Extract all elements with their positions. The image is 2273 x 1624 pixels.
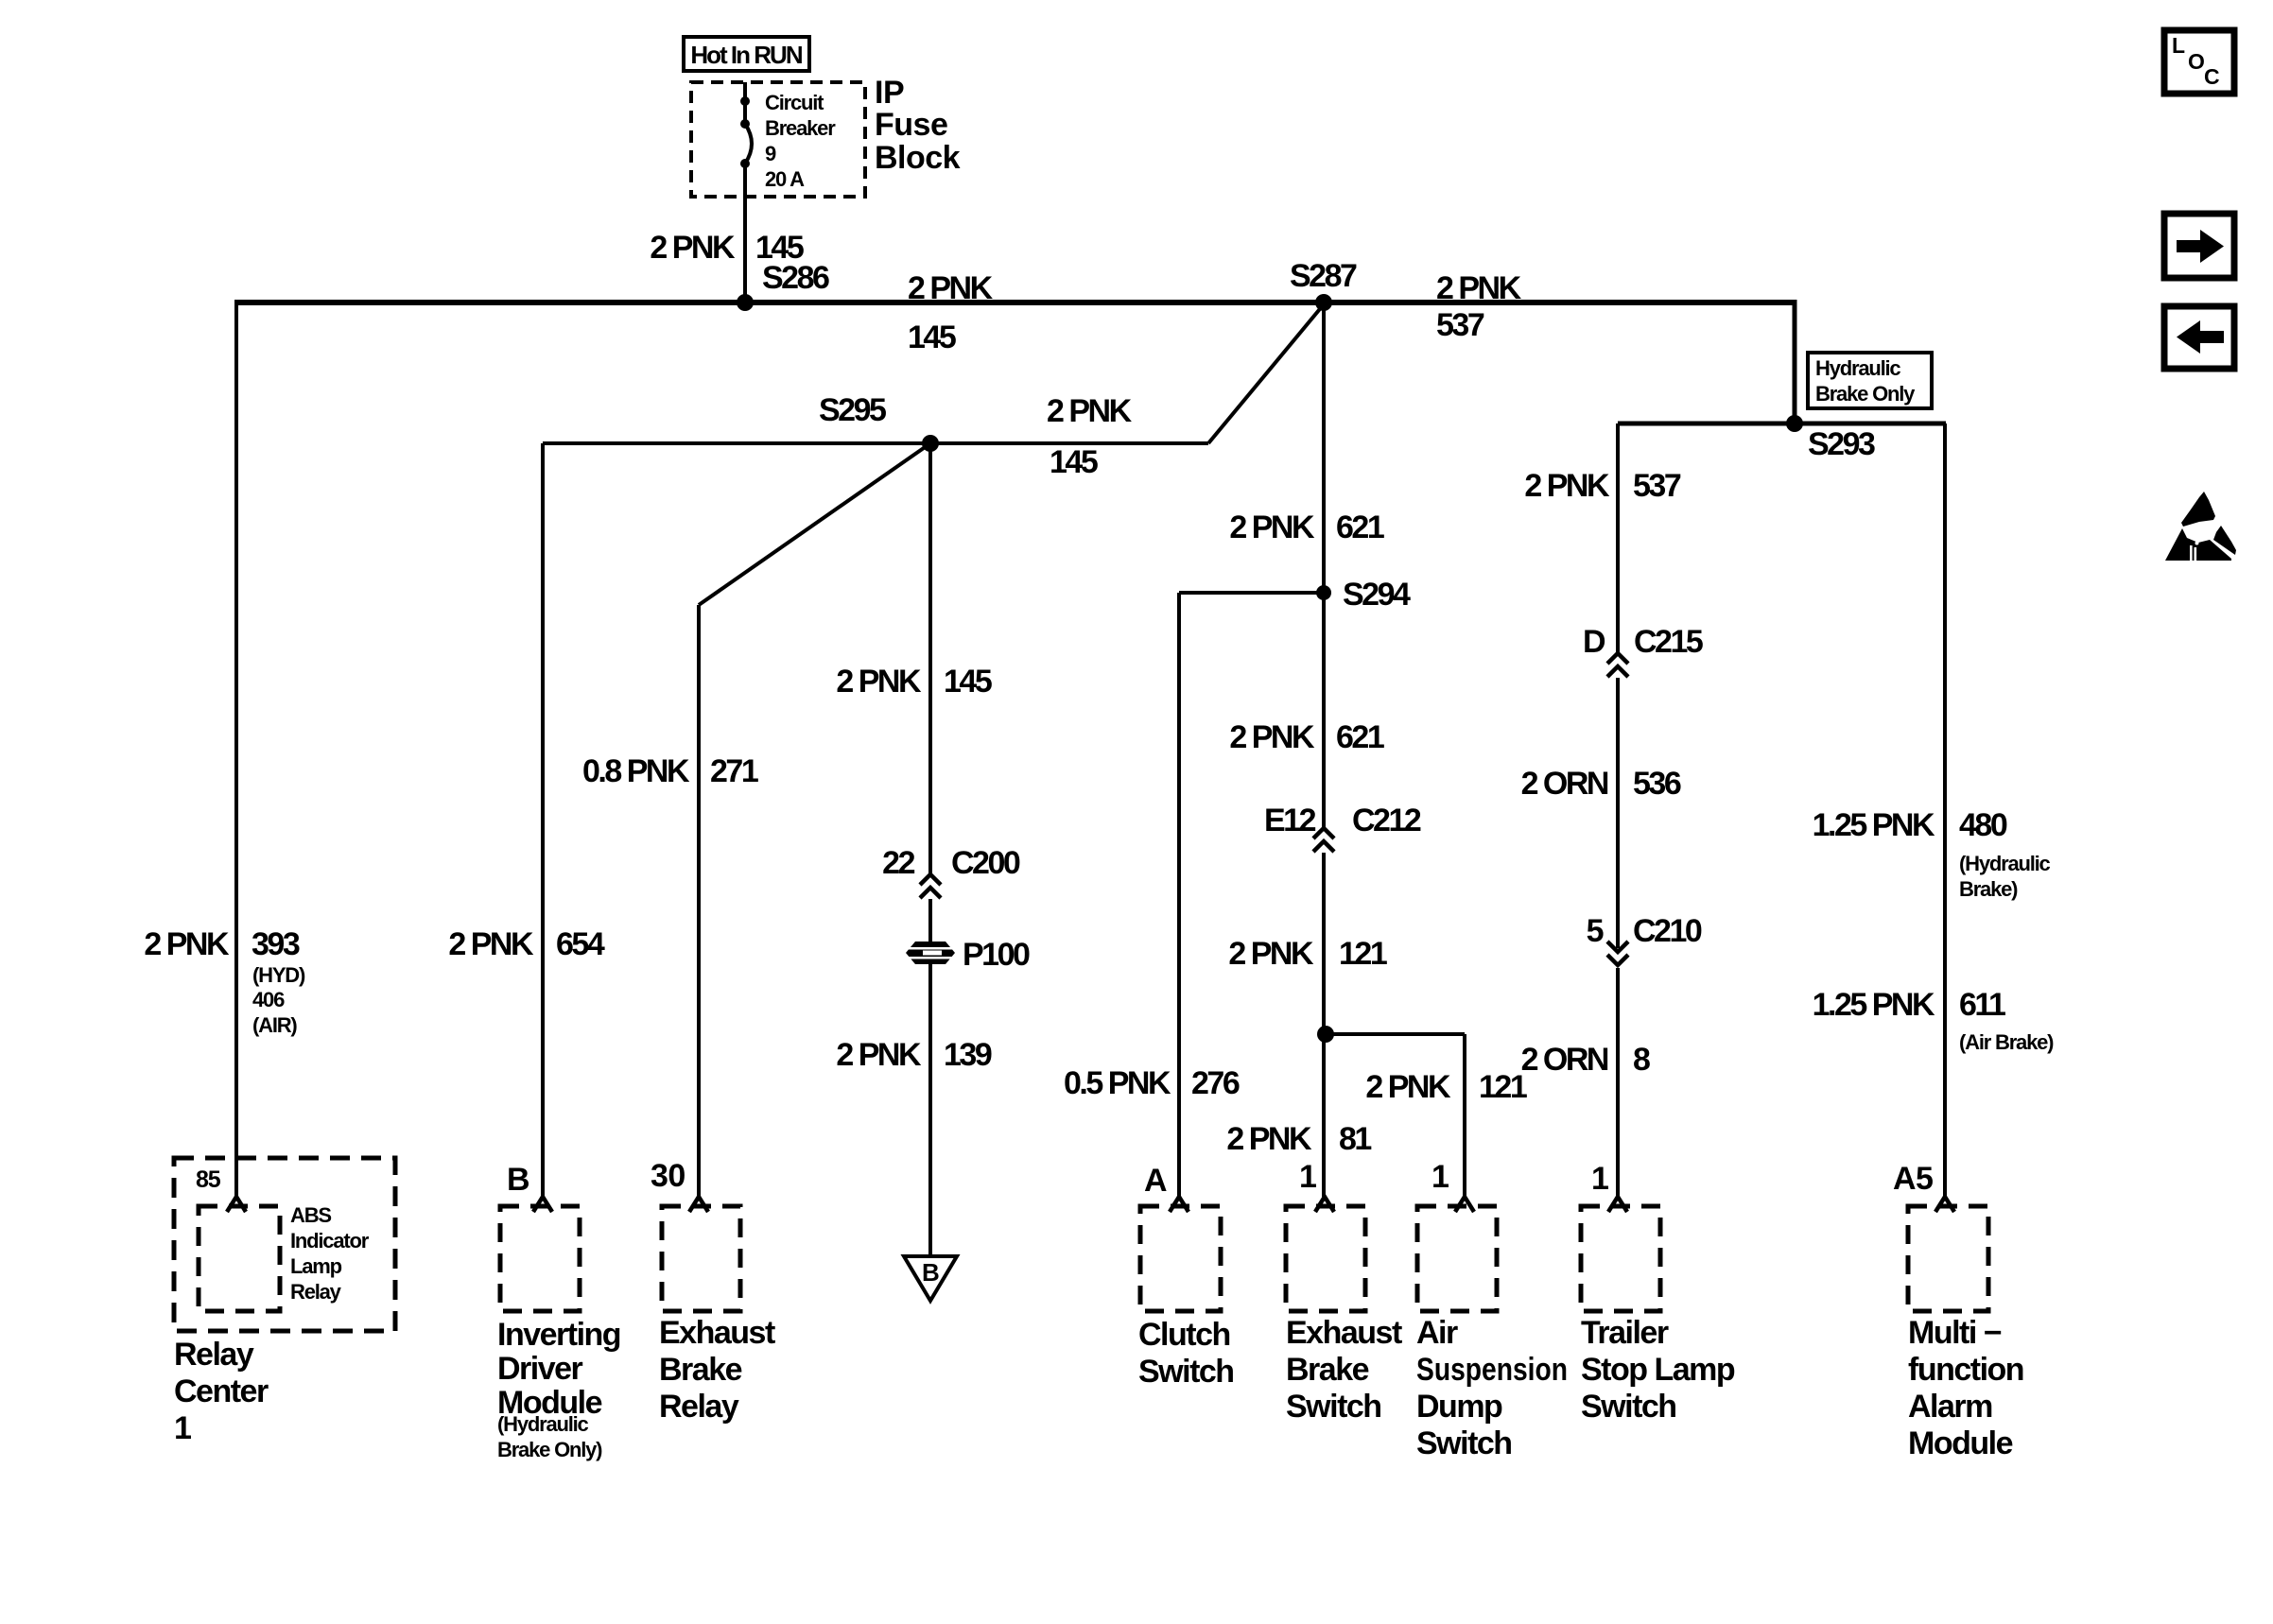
svg-text:Driver: Driver bbox=[497, 1351, 583, 1387]
svg-text:1: 1 bbox=[174, 1410, 191, 1446]
svg-text:2 PNK: 2 PNK bbox=[1229, 510, 1315, 545]
svg-text:271: 271 bbox=[710, 753, 758, 789]
svg-text:B: B bbox=[507, 1162, 529, 1198]
svg-text:2 PNK: 2 PNK bbox=[1524, 468, 1610, 504]
svg-text:20 A: 20 A bbox=[765, 167, 805, 191]
svg-text:D: D bbox=[1583, 624, 1605, 660]
svg-text:1.25 PNK: 1.25 PNK bbox=[1813, 987, 1935, 1023]
svg-text:S286: S286 bbox=[762, 260, 829, 296]
svg-text:IP: IP bbox=[875, 75, 904, 111]
svg-text:121: 121 bbox=[1479, 1069, 1527, 1105]
svg-text:Brake: Brake bbox=[659, 1352, 742, 1388]
svg-text:Module: Module bbox=[1908, 1425, 2013, 1461]
svg-text:O: O bbox=[2188, 49, 2204, 74]
svg-text:Clutch: Clutch bbox=[1138, 1317, 1230, 1353]
svg-text:2 PNK: 2 PNK bbox=[650, 230, 736, 266]
svg-text:2 ORN: 2 ORN bbox=[1521, 766, 1608, 802]
svg-text:2 PNK: 2 PNK bbox=[1229, 719, 1315, 755]
svg-text:Inverting: Inverting bbox=[497, 1317, 620, 1353]
svg-text:Switch: Switch bbox=[1416, 1425, 1512, 1461]
svg-text:406: 406 bbox=[252, 988, 285, 1011]
svg-text:Air: Air bbox=[1416, 1315, 1458, 1351]
svg-text:139: 139 bbox=[944, 1037, 992, 1073]
svg-text:2 PNK: 2 PNK bbox=[144, 926, 230, 962]
svg-text:A5: A5 bbox=[1893, 1161, 1933, 1197]
svg-text:2 PNK: 2 PNK bbox=[1047, 393, 1133, 429]
svg-text:1: 1 bbox=[1591, 1161, 1608, 1197]
svg-text:B: B bbox=[922, 1258, 939, 1287]
svg-text:9: 9 bbox=[765, 142, 776, 165]
svg-text:C: C bbox=[2204, 64, 2219, 89]
svg-text:S294: S294 bbox=[1343, 577, 1411, 613]
svg-text:(Air Brake): (Air Brake) bbox=[1959, 1030, 2054, 1054]
svg-text:1.25 PNK: 1.25 PNK bbox=[1813, 807, 1935, 843]
svg-text:393: 393 bbox=[252, 926, 300, 962]
svg-text:S293: S293 bbox=[1808, 426, 1875, 462]
svg-text:2 PNK: 2 PNK bbox=[836, 664, 922, 700]
svg-text:536: 536 bbox=[1633, 766, 1681, 802]
svg-text:Circuit: Circuit bbox=[765, 91, 824, 114]
svg-text:Indicator: Indicator bbox=[290, 1229, 370, 1253]
svg-text:85: 85 bbox=[196, 1166, 221, 1193]
svg-text:Relay: Relay bbox=[290, 1280, 342, 1304]
svg-text:611: 611 bbox=[1959, 987, 2005, 1023]
svg-text:22: 22 bbox=[882, 845, 914, 881]
svg-text:Center: Center bbox=[174, 1373, 269, 1409]
svg-text:0.5 PNK: 0.5 PNK bbox=[1064, 1065, 1171, 1101]
svg-text:E12: E12 bbox=[1264, 803, 1316, 838]
svg-text:145: 145 bbox=[1050, 444, 1098, 480]
svg-text:Dump: Dump bbox=[1416, 1389, 1502, 1425]
svg-text:2 PNK: 2 PNK bbox=[836, 1037, 922, 1073]
svg-text:Switch: Switch bbox=[1138, 1354, 1234, 1390]
svg-text:145: 145 bbox=[944, 664, 992, 700]
svg-text:8: 8 bbox=[1633, 1042, 1650, 1078]
svg-text:2 PNK: 2 PNK bbox=[908, 270, 994, 306]
svg-text:(AIR): (AIR) bbox=[252, 1013, 297, 1037]
svg-text:1: 1 bbox=[1431, 1159, 1449, 1195]
svg-text:145: 145 bbox=[908, 320, 956, 355]
svg-text:Lamp: Lamp bbox=[290, 1254, 342, 1278]
svg-text:ABS: ABS bbox=[290, 1203, 331, 1227]
svg-text:Brake Only: Brake Only bbox=[1815, 382, 1916, 406]
svg-text:C215: C215 bbox=[1634, 624, 1703, 660]
svg-text:Stop Lamp: Stop Lamp bbox=[1581, 1352, 1735, 1388]
svg-text:Alarm: Alarm bbox=[1908, 1389, 1992, 1425]
svg-text:2 PNK: 2 PNK bbox=[1365, 1069, 1451, 1105]
svg-text:0.8 PNK: 0.8 PNK bbox=[582, 753, 690, 789]
svg-text:function: function bbox=[1908, 1352, 2023, 1388]
svg-text:Exhaust: Exhaust bbox=[659, 1315, 775, 1351]
svg-text:Exhaust: Exhaust bbox=[1286, 1315, 1402, 1351]
svg-text:Hot In RUN: Hot In RUN bbox=[690, 41, 802, 69]
svg-text:276: 276 bbox=[1191, 1065, 1240, 1101]
svg-text:Trailer: Trailer bbox=[1581, 1315, 1669, 1351]
svg-text:30: 30 bbox=[651, 1158, 685, 1194]
svg-text:121: 121 bbox=[1339, 936, 1387, 972]
svg-text:654: 654 bbox=[556, 926, 605, 962]
svg-text:621: 621 bbox=[1336, 719, 1384, 755]
svg-text:Multi −: Multi − bbox=[1908, 1315, 2002, 1351]
svg-text:S287: S287 bbox=[1290, 258, 1357, 294]
svg-text:Relay: Relay bbox=[659, 1389, 739, 1425]
svg-text:Fuse: Fuse bbox=[875, 107, 947, 143]
svg-text:Brake Only): Brake Only) bbox=[497, 1438, 602, 1461]
svg-text:480: 480 bbox=[1959, 807, 2007, 843]
svg-text:537: 537 bbox=[1436, 307, 1484, 343]
svg-text:Block: Block bbox=[875, 140, 961, 176]
svg-text:Switch: Switch bbox=[1286, 1389, 1381, 1425]
svg-text:(Hydraulic: (Hydraulic bbox=[1959, 852, 2051, 875]
svg-text:L: L bbox=[2172, 33, 2185, 58]
svg-text:Brake): Brake) bbox=[1959, 877, 2018, 901]
svg-text:C212: C212 bbox=[1352, 803, 1421, 838]
svg-text:S295: S295 bbox=[819, 392, 886, 428]
svg-text:621: 621 bbox=[1336, 510, 1384, 545]
svg-text:P100: P100 bbox=[963, 937, 1030, 973]
svg-text:2 PNK: 2 PNK bbox=[1228, 936, 1314, 972]
svg-text:C200: C200 bbox=[951, 845, 1020, 881]
svg-text:Breaker: Breaker bbox=[765, 116, 836, 140]
svg-text:Suspension: Suspension bbox=[1416, 1352, 1568, 1388]
svg-text:1: 1 bbox=[1299, 1159, 1316, 1195]
svg-text:C210: C210 bbox=[1633, 913, 1702, 949]
svg-text:2 PNK: 2 PNK bbox=[1436, 270, 1522, 306]
svg-text:5: 5 bbox=[1587, 913, 1604, 949]
svg-text:Relay: Relay bbox=[174, 1337, 254, 1373]
svg-text:2 PNK: 2 PNK bbox=[1226, 1121, 1312, 1157]
svg-text:537: 537 bbox=[1633, 468, 1681, 504]
svg-text:81: 81 bbox=[1339, 1121, 1371, 1157]
svg-text:(HYD): (HYD) bbox=[252, 963, 305, 987]
svg-text:Switch: Switch bbox=[1581, 1389, 1676, 1425]
svg-text:Hydraulic: Hydraulic bbox=[1815, 356, 1900, 380]
svg-text:(Hydraulic: (Hydraulic bbox=[497, 1412, 589, 1436]
svg-text:2 PNK: 2 PNK bbox=[448, 926, 534, 962]
svg-text:A: A bbox=[1144, 1163, 1167, 1199]
svg-text:Brake: Brake bbox=[1286, 1352, 1369, 1388]
svg-text:2 ORN: 2 ORN bbox=[1521, 1042, 1608, 1078]
